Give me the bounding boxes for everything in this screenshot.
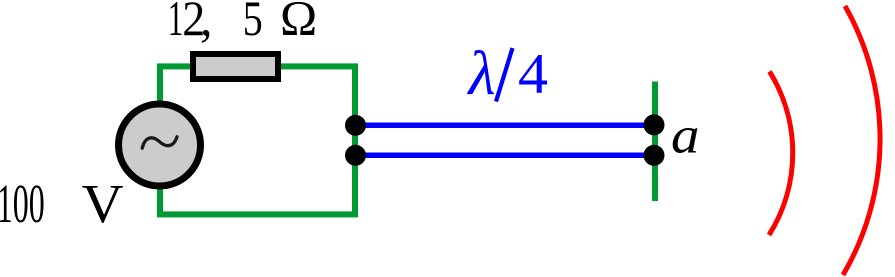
svg-text:5: 5 xyxy=(243,0,263,46)
node dot: right upper xyxy=(644,114,665,135)
wire: transmission line lower conductor xyxy=(355,153,655,159)
resistor R (12,5 Ohm) body xyxy=(193,54,278,79)
radiated wave arc large xyxy=(843,6,880,275)
node dot: right lower xyxy=(644,145,665,166)
wire: green circuit loop xyxy=(160,66,355,214)
svg-text:Ω: Ω xyxy=(280,0,318,46)
radiated wave arc small xyxy=(769,72,793,236)
svg-text:,: , xyxy=(200,0,213,46)
AC source sine tilde xyxy=(142,137,177,148)
svg-text:V: V xyxy=(82,173,124,234)
svg-text:4: 4 xyxy=(518,43,548,106)
AC voltage source circle xyxy=(119,104,201,186)
node dot: left lower xyxy=(345,145,366,166)
svg-text:λ: λ xyxy=(466,40,495,108)
node dot: left upper xyxy=(345,115,366,136)
svg-text:a: a xyxy=(671,107,700,164)
svg-text:1: 1 xyxy=(168,0,184,46)
wire: transmission line upper conductor xyxy=(355,123,655,129)
svg-text:100: 100 xyxy=(0,173,45,234)
label lambda/4: slash stroke xyxy=(496,48,513,102)
antenna feed wire (green vertical) xyxy=(652,82,658,202)
